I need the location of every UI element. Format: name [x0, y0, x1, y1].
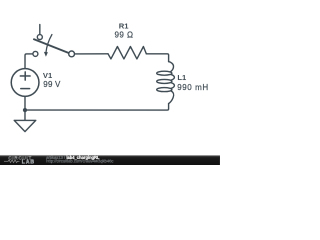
- inductor L1 connector 1: [171, 74, 175, 80]
- wire V1 bottom: [24, 96, 26, 110]
- inductor L1 connector 2: [171, 83, 175, 89]
- wire V1 top to switch left throw: [25, 54, 33, 69]
- wire stub above switch top throw: [39, 25, 41, 35]
- V1 minus sign: [21, 88, 30, 90]
- svg-text:http://circuitlab.com/c/ae94w3: http://circuitlab.com/c/ae94w3qkb46c: [46, 159, 113, 164]
- ground symbol: [14, 120, 36, 131]
- svg-text:R1: R1: [119, 22, 129, 31]
- inductor L1 loop 3: [157, 88, 172, 92]
- wire pole to resistor: [75, 53, 109, 55]
- svg-text:99 V: 99 V: [43, 80, 61, 89]
- switch throw terminal circle (top): [37, 35, 42, 40]
- junction node dot: [23, 108, 27, 112]
- wire to ground: [24, 110, 26, 120]
- inductor L1 loop 2: [157, 79, 172, 83]
- resistor R1 zigzag: [108, 46, 146, 58]
- inductor L1 coil exit curve: [169, 91, 174, 104]
- svg-text:LAB: LAB: [22, 159, 35, 165]
- inductor L1 loop 1: [157, 71, 172, 75]
- voltage source V1 circle: [11, 69, 39, 97]
- switch actuation arrow: [46, 35, 52, 53]
- wire resistor to top-right corner: [146, 54, 168, 62]
- switch throw terminal circle (left): [33, 51, 38, 56]
- switch pole terminal circle: [69, 51, 75, 57]
- inductor L1 coil entry curve: [169, 62, 174, 72]
- switch arrow head: [44, 52, 48, 57]
- svg-text:990 mH: 990 mH: [177, 83, 209, 92]
- wire inductor bottom to bottom rail: [25, 104, 169, 111]
- svg-text:V1: V1: [43, 71, 53, 80]
- switch SW1 lever: [34, 39, 69, 53]
- svg-text:99 Ω: 99 Ω: [114, 31, 133, 40]
- CircuitLab logo zigzag: [4, 160, 20, 163]
- svg-text:L1: L1: [177, 73, 187, 82]
- V1 plus sign: [20, 72, 30, 80]
